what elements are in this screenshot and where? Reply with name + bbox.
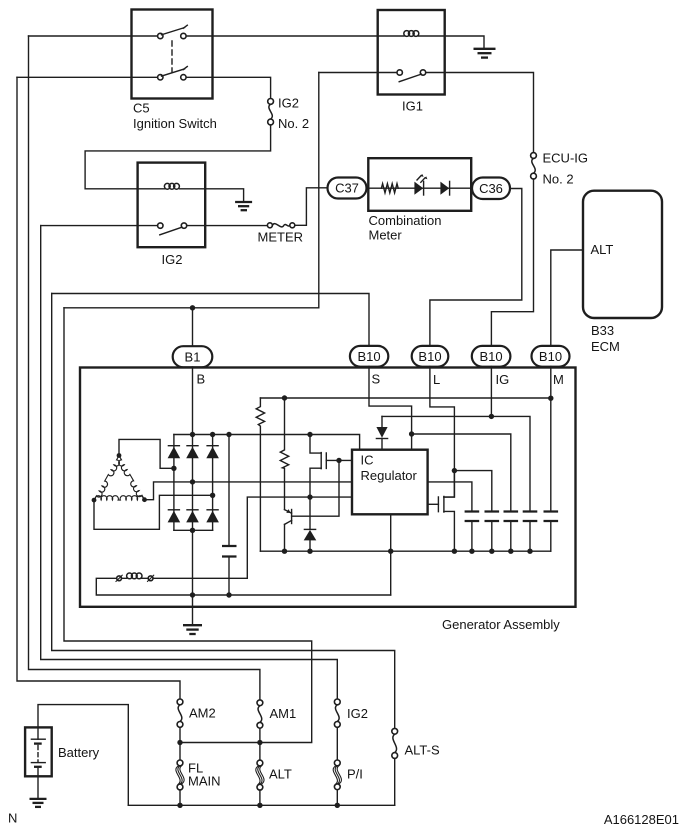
wire: IG line to D1 [382, 415, 491, 417]
wire: C5 bottom switch output to IG2 No.2 fuse [186, 77, 271, 98]
svg-text:B10: B10 [358, 349, 381, 364]
svg-text:ALT: ALT [269, 767, 292, 782]
resistor R1 (sense) [256, 398, 264, 551]
ground: IG1 relay coil [474, 49, 496, 58]
switch C5 upper blade [162, 28, 185, 35]
wire: S terminal into regulator [369, 367, 412, 450]
svg-text:S: S [372, 372, 381, 387]
wire: AM1 bus (C5 top sw - AM1 fuse) [29, 36, 260, 700]
svg-text:L: L [433, 372, 440, 387]
fuse IG2 No.2 top terminal [268, 99, 274, 105]
node: top rail / noise capacitor [226, 432, 231, 437]
svg-text:IG1: IG1 [402, 99, 423, 114]
connector C36 [472, 178, 510, 200]
diode rectifier lower 3 [206, 510, 219, 523]
wire: B line (B1 to rectifier and ground) [192, 367, 194, 625]
diode meter [440, 181, 449, 195]
diode rectifier upper 1 [168, 446, 181, 459]
box generator assembly [80, 368, 576, 607]
node: phase 3 tap [210, 493, 215, 498]
capacitor C4 [523, 512, 538, 552]
node: rail / C3 [508, 549, 513, 554]
svg-text:AM2: AM2 [189, 706, 216, 721]
wire: stator phase 1 to rectifier [119, 439, 174, 468]
node: Q3 emitter at ground rail [282, 549, 287, 554]
svg-text:B: B [197, 372, 206, 387]
wire: IG1 switch left to battery vertical [319, 72, 400, 74]
wire: METER fuse to combination meter C37 [295, 188, 328, 226]
fuse IG2 No.2 bottom terminal [268, 119, 274, 125]
capacitor C1 [465, 512, 480, 552]
node: top rail / MOSFET Q1 drain [307, 432, 312, 437]
svg-text:Generator Assembly: Generator Assembly [442, 617, 560, 632]
wire: IG2 switch left to bus [41, 225, 160, 227]
node: ground rail / B line [190, 592, 195, 597]
svg-text:ECU-IG: ECU-IG [543, 151, 589, 166]
fuse ALT-S [392, 728, 398, 805]
svg-text:A166128E01: A166128E01 [604, 812, 679, 827]
switch IG2 contact right [181, 223, 186, 228]
svg-text:B10: B10 [480, 349, 503, 364]
wire: battery-B1 horizontal [64, 73, 319, 308]
wire: M sense line [260, 397, 550, 399]
svg-text:ALT: ALT [591, 242, 614, 257]
switch C5 lower contact left [158, 75, 163, 80]
diode rectifier upper 3 [206, 446, 219, 459]
wire: rectifier bottom rail (ground) [174, 529, 213, 531]
connector C37 [328, 178, 367, 199]
node: rail / Q2 source [452, 549, 457, 554]
field coil rotor [116, 573, 154, 582]
svg-text:MAIN: MAIN [188, 774, 221, 789]
fuse ECU-IG No.2 element [532, 158, 535, 173]
MOSFET Q1 [310, 435, 352, 498]
svg-text:IG2: IG2 [347, 706, 368, 721]
ground: battery [30, 799, 47, 807]
wire: ECM ALT pin to B10 M terminal [551, 250, 583, 345]
node: bus / P/I [335, 803, 340, 808]
wire: regulator right pin to capacitor C1 [428, 482, 472, 512]
wire: ECU-IG No.2 fuse to B10 IG terminal [491, 179, 533, 345]
svg-text:AM1: AM1 [270, 706, 297, 721]
svg-text:B33: B33 [591, 323, 614, 338]
fuse ECU-IG No.2 top terminal [531, 153, 537, 159]
fuse METER right terminal [290, 223, 295, 228]
switch C5 upper contact left [158, 33, 163, 38]
diode D1 (lamp) [376, 416, 387, 449]
wire: regulator ground pin [390, 514, 392, 595]
resistor R2 [280, 398, 288, 510]
svg-text:No. 2: No. 2 [543, 172, 574, 187]
stator delta winding [94, 456, 145, 501]
fusible link P/I [333, 760, 341, 805]
svg-text:ALT-S: ALT-S [405, 743, 440, 758]
node: rail / regulator ground [388, 549, 393, 554]
svg-text:C36: C36 [479, 181, 503, 196]
MOSFET Q2 [428, 471, 455, 552]
wire: rectifier string 1 [173, 435, 175, 531]
coil IG2 relay [164, 183, 179, 189]
coil IG1 relay [404, 31, 419, 37]
svg-text:C37: C37 [335, 181, 359, 196]
wire: L terminal into generator [430, 367, 455, 471]
wire: C36 to B10 L terminal [430, 189, 522, 346]
fuse METER left terminal [267, 223, 272, 228]
wire: B1 stem [192, 308, 194, 346]
connector B1 [173, 346, 213, 367]
diode rectifier lower 1 [168, 510, 181, 523]
wire: rectifier top rail (B+) [174, 435, 360, 450]
svg-text:M: M [553, 372, 564, 387]
capacitor C3 [504, 512, 519, 552]
wire: S line to B10 S [52, 294, 369, 346]
switch IG1 blade [399, 74, 421, 82]
wire: L branch to capacitor C2 [454, 471, 491, 512]
connector B10 (terminal L) [412, 346, 449, 367]
wire: field coil to regulator field pin [153, 497, 352, 578]
wire: IG1 coil to ground [419, 36, 485, 48]
svg-text:Ignition Switch: Ignition Switch [133, 116, 217, 131]
battery [25, 705, 128, 806]
svg-text:No. 2: No. 2 [278, 116, 309, 131]
switch C5 lower blade [162, 69, 185, 76]
wire: IG2 bus (IG2 relay sw - IG2 fuse) [41, 226, 338, 699]
capacitor noise suppression (B) [222, 435, 237, 596]
svg-text:Regulator: Regulator [361, 468, 418, 483]
connector B10 (terminal S) [350, 346, 388, 367]
node: L branch [452, 468, 457, 473]
node: stator bottom right [142, 497, 147, 502]
node: B at rectifier top rail [190, 432, 195, 437]
ground: generator main [183, 625, 202, 634]
node: stator bottom left [92, 498, 97, 503]
fusible link ALT [256, 760, 264, 805]
svg-text:N: N [8, 811, 17, 826]
node: IG line / D1 branch [489, 414, 494, 419]
wire: IG1 switch right to ECU-IG No.2 fuse [423, 73, 534, 153]
wire: IG2 No.2 fuse to IG2 relay coil [85, 125, 271, 189]
node: D2 at ground rail [307, 549, 312, 554]
wire: C5 top switch output to IG1 coil [186, 35, 404, 37]
switch IG1 contact right [420, 70, 425, 75]
wire: IG2 coil to ground [180, 189, 244, 202]
connector B10 (terminal M) [532, 346, 570, 367]
node: M line / R2 [282, 395, 287, 400]
node: phase 2 tap [190, 479, 195, 484]
wire: L branch to MOSFET Q2 drain [444, 471, 455, 498]
wire: S branch to capacitor C3 [412, 434, 511, 512]
wire: S bus (B10 S - ALT-S fuse) [52, 294, 395, 729]
node: Q1 source / field line / D2 [307, 494, 312, 499]
node: Q1 gate / Q3 base [336, 458, 341, 463]
node: bus / ALT [257, 803, 262, 808]
resistor meter (charge lamp series) [381, 184, 398, 193]
fuse IG2 No.2 element [269, 104, 272, 119]
node: phase 1 tap [171, 466, 176, 471]
wire: main battery bus (B1 / IG1 feed - fuse box) [64, 308, 312, 743]
box C5 ignition switch [132, 10, 213, 99]
wire: IG terminal into generator [490, 367, 492, 417]
wire: battery positive bus [128, 804, 394, 806]
switch C5 lower contact right [181, 75, 186, 80]
diode D2 (field flyback) [304, 497, 317, 551]
switch IG2 contact left [158, 223, 163, 228]
wire: IG branch to capacitor C4 [491, 416, 530, 511]
capacitor C2 [485, 512, 500, 552]
fuse IG2 (block) [334, 699, 340, 760]
node: rail / C4 [527, 549, 532, 554]
ground: IG2 relay coil [235, 202, 252, 210]
wire: M terminal into generator to capacitor C5 [550, 367, 552, 512]
svg-text:IC: IC [361, 453, 374, 468]
wire: meter internal [364, 187, 472, 189]
svg-text:Combination: Combination [369, 213, 442, 228]
svg-text:B10: B10 [418, 349, 441, 364]
svg-text:IG: IG [496, 372, 510, 387]
svg-text:B1: B1 [185, 349, 201, 364]
box combination meter [368, 158, 471, 211]
wire: C5 top switch feed to left bus [29, 35, 161, 37]
switch IG1 contact left [397, 70, 402, 75]
wire: stator phase 3 to rectifier [94, 495, 213, 529]
fuse METER element [272, 224, 289, 227]
node: stator top [117, 453, 122, 458]
diode rectifier lower 2 [186, 510, 199, 523]
IC regulator box U1 [352, 450, 428, 515]
fuse AM2 [177, 699, 183, 760]
wire: capacitor ground rail [260, 550, 550, 552]
connector B10 (terminal IG) [472, 346, 511, 367]
node: S line branch [409, 431, 414, 436]
node: bottom rail / B string [190, 528, 195, 533]
node: B1 stem junction [190, 305, 195, 310]
capacitor C5 [544, 512, 559, 552]
node: ground rail / noise capacitor [226, 592, 231, 597]
fuse ECU-IG No.2 bottom terminal [531, 173, 537, 179]
box IG1 relay [378, 10, 445, 95]
node: M line / M terminal vertical [548, 396, 553, 401]
fusible link FL MAIN [176, 760, 184, 805]
node: rail / C1 [469, 549, 474, 554]
node: top rail / string3 [210, 432, 215, 437]
wire: rectifier string 3 [212, 435, 214, 531]
svg-text:B10: B10 [539, 349, 562, 364]
node: bus / FL MAIN [177, 803, 182, 808]
wire: IG2 switch right to METER fuse [186, 225, 268, 227]
node: AM2 / FL MAIN junction [177, 740, 182, 745]
switch C5 upper contact right [181, 33, 186, 38]
wire: C5 bottom switch feed to left bus [17, 76, 160, 78]
svg-text:C5: C5 [133, 101, 150, 116]
svg-text:IG2: IG2 [162, 252, 183, 267]
diode rectifier upper 2 [186, 446, 199, 459]
transistor Q3 (field driver) [285, 460, 340, 551]
box IG2 relay [138, 163, 206, 248]
svg-text:Meter: Meter [369, 228, 403, 243]
LED charge warning lamp [414, 174, 427, 195]
svg-text:P/I: P/I [347, 767, 363, 782]
svg-text:IG2: IG2 [278, 96, 299, 111]
svg-text:ECM: ECM [591, 339, 620, 354]
wire: AM2 bus (C5 bottom sw - AM2 fuse) [17, 77, 180, 699]
switch IG2 blade [160, 227, 182, 235]
svg-text:Battery: Battery [58, 745, 100, 760]
box B33 ECM [583, 191, 662, 318]
fuse AM1 [257, 700, 263, 760]
node: AM1 / ALT junction [257, 740, 262, 745]
dashed link between C5 switch poles [171, 41, 173, 72]
svg-text:METER: METER [258, 230, 304, 245]
wire: main ground rail [96, 578, 390, 595]
wire: stator phase 2 to rectifier and IC regulator [145, 482, 353, 500]
node: rail / C2 [489, 549, 494, 554]
